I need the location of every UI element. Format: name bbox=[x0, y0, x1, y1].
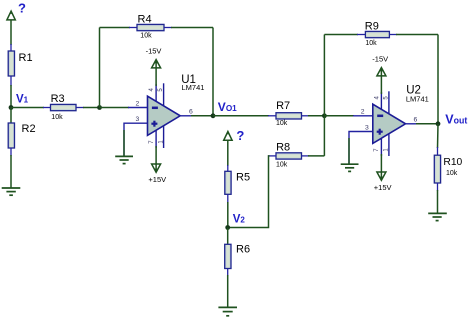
wire R9 to Vout node bbox=[389, 34, 397, 36]
svg-text:?: ? bbox=[236, 128, 244, 143]
+15V power arrow (U1) bbox=[152, 164, 161, 172]
wire Vo1 to R7 bbox=[213, 115, 269, 117]
resistor R8 10k bbox=[276, 142, 302, 169]
wire node A to U1 pin 2 bbox=[100, 107, 130, 109]
svg-text:2: 2 bbox=[136, 100, 140, 107]
svg-text:R8: R8 bbox=[276, 142, 290, 154]
svg-text:+15V: +15V bbox=[148, 175, 166, 184]
svg-text:-15V: -15V bbox=[146, 47, 162, 56]
svg-text:6: 6 bbox=[414, 117, 418, 124]
ground (U2 pin 3) bbox=[341, 164, 359, 171]
svg-text:Vout: Vout bbox=[445, 112, 467, 126]
resistor R10 10k bbox=[434, 124, 462, 191]
svg-text:+15V: +15V bbox=[374, 183, 392, 192]
node V1 bbox=[9, 105, 14, 110]
svg-text:V1: V1 bbox=[16, 93, 29, 105]
resistor R1 bbox=[8, 44, 32, 86]
wire R4 to output node bbox=[164, 27, 172, 29]
svg-text:10k: 10k bbox=[276, 162, 288, 169]
svg-text:R2: R2 bbox=[22, 123, 36, 135]
U1 power pins 4/7 vertical line bbox=[155, 84, 157, 148]
wire R7 to node B (U2 inverting input) bbox=[302, 115, 310, 117]
wire R8 left down to node V2 bbox=[269, 155, 277, 157]
svg-text:LM741: LM741 bbox=[182, 83, 205, 92]
svg-text:LM741: LM741 bbox=[406, 95, 429, 104]
wire node B up to R9 bbox=[323, 35, 325, 116]
wire R6 to ground bbox=[227, 275, 229, 307]
svg-text:R10: R10 bbox=[443, 157, 462, 168]
wire R5 to node V2 bbox=[227, 202, 229, 228]
op-amp U1 LM741 bbox=[148, 74, 205, 135]
input terminal arrow ? (above R5) bbox=[224, 132, 232, 167]
resistor R3 10k bbox=[51, 93, 77, 121]
svg-text:R3: R3 bbox=[51, 93, 65, 105]
resistor R4 10k (feedback U1) bbox=[137, 13, 164, 39]
wire U2 pin 3 to ground bbox=[349, 132, 373, 164]
wire R3 to node A (U1 inverting input) bbox=[76, 107, 84, 109]
resistor R7 10k bbox=[276, 100, 302, 127]
svg-text:?: ? bbox=[18, 1, 26, 16]
wire R1 to node V1 bbox=[10, 85, 12, 108]
node A junction bbox=[97, 105, 102, 110]
resistor R9 10k (feedback U2) bbox=[365, 20, 390, 47]
wire R2 to ground bbox=[10, 155, 12, 188]
U1 offset-null pins 5/1 vertical line bbox=[163, 83, 165, 148]
wire node A up to R4 bbox=[99, 28, 101, 108]
svg-text:6: 6 bbox=[189, 109, 193, 116]
svg-text:R4: R4 bbox=[138, 13, 152, 25]
svg-text:V2: V2 bbox=[233, 213, 246, 225]
ground (below R6) bbox=[218, 307, 237, 315]
svg-text:2: 2 bbox=[361, 108, 365, 115]
svg-text:10k: 10k bbox=[51, 114, 63, 121]
svg-text:R5: R5 bbox=[236, 172, 250, 184]
resistor R2 bbox=[8, 108, 35, 157]
svg-text:3: 3 bbox=[365, 125, 369, 132]
svg-text:3: 3 bbox=[136, 116, 140, 123]
node B junction bbox=[322, 113, 327, 118]
node Vo1 bbox=[211, 113, 216, 118]
svg-text:10k: 10k bbox=[446, 170, 458, 177]
U2 output pin 6 wire to node Vout bbox=[406, 123, 418, 125]
wire node B to U2 pin 2 bbox=[324, 115, 354, 117]
ground (below R2) bbox=[2, 188, 21, 195]
svg-text:10k: 10k bbox=[276, 120, 288, 127]
svg-text:R9: R9 bbox=[365, 20, 379, 32]
svg-text:R1: R1 bbox=[19, 52, 33, 64]
node Vout bbox=[436, 121, 441, 126]
wire U1 pin 3 to ground bbox=[124, 123, 148, 156]
svg-text:R6: R6 bbox=[236, 243, 250, 255]
input terminal arrow ? (top-left) bbox=[7, 11, 15, 45]
wire R8 right to node B branch bbox=[302, 155, 310, 157]
svg-text:R7: R7 bbox=[276, 100, 290, 112]
ground (U1 pin 3) bbox=[115, 156, 133, 163]
svg-text:10k: 10k bbox=[365, 40, 377, 47]
U2 power pins 4/7 vertical line bbox=[380, 92, 382, 156]
resistor R5 bbox=[225, 165, 250, 203]
resistor R6 bbox=[225, 228, 250, 277]
-15V power arrow (U2) bbox=[377, 68, 386, 76]
ground (below R10) bbox=[428, 213, 447, 220]
op-amp U2 LM741 bbox=[373, 84, 429, 143]
U1 output pin 6 wire to node Vo1 bbox=[180, 115, 192, 117]
node V2 bbox=[225, 225, 230, 230]
U2 offset-null pins 5/1 vertical line bbox=[388, 91, 390, 156]
wire V1 to R3 bbox=[11, 107, 44, 109]
svg-text:10k: 10k bbox=[140, 33, 152, 40]
svg-text:-15V: -15V bbox=[372, 55, 388, 64]
+15V power arrow (U2) bbox=[377, 172, 386, 180]
wire R10 to ground bbox=[437, 190, 439, 213]
-15V power arrow (U1) bbox=[152, 60, 161, 68]
